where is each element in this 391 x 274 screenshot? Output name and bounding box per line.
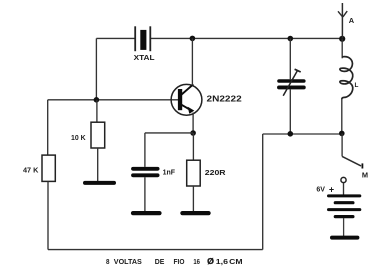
antenna A [338, 3, 347, 38]
battery B1 6V [329, 196, 360, 236]
svg-text:M: M [362, 170, 368, 179]
wire: XTAL left drop down to base rail [95, 38, 97, 99]
node: variable capacitor bottom junction dot [288, 131, 294, 137]
wire: variable capacitor bottom lead [289, 89, 291, 133]
svg-text:CM: CM [229, 257, 242, 266]
node: collector junction dot [190, 36, 196, 42]
wire: right riser up to supply line [262, 134, 264, 250]
ground under 220R [182, 211, 208, 215]
ground under 1nF [133, 211, 160, 215]
svg-text:Ø: Ø [207, 256, 214, 266]
wire: bottom rail [48, 249, 263, 251]
ground under 10K [85, 181, 114, 185]
wire: 1nF top lead [144, 133, 146, 167]
svg-text:VOLTAS: VOLTAS [114, 257, 142, 266]
wire: 10K top lead [96, 100, 98, 122]
switch M [341, 156, 363, 182]
ground: battery negative bar [332, 236, 357, 240]
wire: 47K bottom lead down to bottom rail [47, 181, 49, 249]
wire: switch feed [341, 133, 343, 156]
inductor L [340, 57, 353, 100]
resistor 220R [187, 160, 201, 186]
node: emitter junction dot [190, 130, 196, 136]
svg-text:2N2222: 2N2222 [207, 95, 243, 104]
wire: emitter lead [192, 113, 194, 134]
wire: emitter node to 1nF top [145, 132, 193, 134]
svg-text:DE: DE [155, 257, 165, 266]
svg-text:16: 16 [193, 257, 200, 266]
wire: switch terminal to battery positive [343, 183, 345, 195]
svg-text:1nF: 1nF [163, 167, 176, 176]
wire: 10K bottom lead [97, 148, 99, 181]
variable capacitor CV [279, 69, 304, 96]
wire: 1nF bottom lead [144, 177, 146, 211]
svg-text:6V: 6V [316, 185, 325, 194]
crystal XTAL [135, 26, 150, 51]
wire: base rail [48, 99, 178, 101]
svg-text:47 K: 47 K [23, 166, 39, 175]
wire: inductor bottom lead [341, 98, 343, 133]
wire: antenna column down to inductor top [341, 39, 343, 59]
wire: supply line to switch column [263, 133, 342, 135]
wire: 220R bottom lead [192, 186, 194, 211]
resistor 47K [42, 155, 55, 181]
resistor 10K [91, 122, 105, 148]
wire: left rail down from base corner to 47K [47, 100, 49, 155]
node: variable capacitor top junction dot [288, 36, 294, 42]
svg-text:FIO: FIO [174, 257, 185, 266]
label: coil winding note [106, 256, 243, 266]
svg-text:220R: 220R [205, 168, 227, 177]
capacitor C1 1nF [133, 169, 158, 176]
svg-text:8: 8 [106, 257, 110, 266]
wire: 220R top lead [192, 133, 194, 160]
svg-text:1,6: 1,6 [216, 257, 228, 266]
svg-text:10 K: 10 K [71, 133, 86, 142]
node: antenna junction dot [339, 36, 345, 42]
wire: top rail, base-drop corner to XTAL left plate [96, 37, 135, 39]
svg-text:XTAL: XTAL [134, 53, 156, 62]
wire: top rail, XTAL right plate to antenna column [150, 37, 342, 39]
wire: collector lead [191, 38, 193, 85]
wire: variable capacitor top lead [289, 39, 291, 80]
svg-text:L: L [355, 82, 359, 89]
node: base junction dot [94, 97, 100, 103]
transistor Q1 2N2222 [171, 84, 202, 115]
svg-text:A: A [349, 16, 355, 25]
node: inductor bottom junction dot [339, 131, 345, 137]
svg-text:+: + [329, 184, 334, 194]
